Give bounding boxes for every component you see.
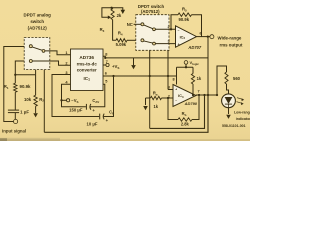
resistor Ra 1k and ground arrow (146, 97, 151, 99)
wire node A to R2 (15, 74, 35, 76)
feedback resistor R5 90.9k (170, 28, 172, 30)
wire S1 top to AD736 pin1 (45, 51, 71, 55)
S1 top lever (32, 47, 42, 50)
DPDT analog switch box (AD7512) S1 (24, 38, 50, 70)
wire pot bottom to R4 (113, 20, 116, 41)
S1 top pole contact (29, 45, 32, 48)
wire node A to switch bottom pole (15, 61, 29, 75)
wire pot top to +Vs arrow (112, 8, 123, 10)
resistor R1 90.9k (14, 83, 17, 92)
ground arrow below R2 (35, 106, 37, 113)
terminal Vlogic (184, 61, 188, 65)
op-amp IC2 AD707 (176, 26, 197, 47)
+Vs down arrow (133, 58, 135, 65)
wire S2 to AD707 pin2 (155, 28, 175, 30)
LED cathode to ground arrow (228, 108, 230, 115)
capacitor C1 1uF (14, 113, 16, 120)
S2 top pole contact (141, 23, 144, 26)
pot wiper loop (102, 8, 112, 17)
S1 bottom pole contact (29, 60, 32, 63)
terminal +Vs on pin7 (103, 64, 106, 66)
wire S2 to AD707 pin3 (155, 43, 175, 45)
capacitor CAV 150uF (85, 104, 87, 110)
capacitor CF 10uF (99, 114, 101, 120)
potentiometer R3 2k zero adjust (111, 9, 114, 20)
long vertical from output junction (207, 37, 209, 95)
resistor R2 10k (35, 75, 37, 95)
AD736 rms-to-dc converter IC1 (71, 49, 104, 91)
wire pin4 to -Vs and CAV loop (62, 84, 86, 107)
wire S2 box bottom to comparator input (167, 50, 169, 89)
resistor 1k pullup (192, 67, 194, 73)
resistor R4 5.09k (116, 39, 127, 42)
S2 bottom pole contact (141, 39, 144, 42)
node A (R1 top junction) (14, 75, 16, 83)
wire pin8 +Vs supply line (103, 56, 105, 58)
wire S1 box bottom to bottom rail (43, 70, 45, 133)
wire pin6 rms output line (103, 75, 177, 77)
wire to comparator pin8 (176, 67, 178, 84)
terminal -Vs (67, 99, 70, 102)
LED emission arrows (237, 98, 243, 100)
comparator IC3 AD790 (173, 85, 196, 107)
wire pin3 to CF loop (52, 75, 99, 117)
LED low-range indicator (222, 94, 236, 108)
resistor 560 and LED branch (217, 66, 227, 95)
DPDT switch box (AD7512) S2 (136, 15, 169, 51)
control line to S2 (150, 95, 205, 128)
feedback resistor Rb 2.8k (168, 98, 178, 120)
terminal wide-range output (210, 35, 214, 39)
corner spot (0, 138, 7, 141)
S2 top lever (144, 25, 153, 29)
wire S2 box bottom control riser (149, 50, 151, 128)
input terminal J1 (4, 47, 30, 122)
wire S1 bottom pole to AD736 pin2 (32, 61, 70, 65)
bottom edge shading (0, 139, 250, 141)
